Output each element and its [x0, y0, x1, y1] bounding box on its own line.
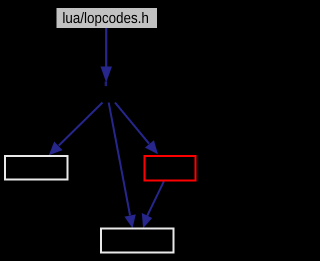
red node (truncated, empty box): [145, 156, 196, 181]
left node (empty box): [5, 156, 68, 180]
edge llimits.h -> bottom node (middle line): [109, 103, 136, 229]
edge red node -> bottom node: [142, 182, 164, 229]
edge lopcodes.h -> llimits.h (vertical arrow): [101, 28, 113, 86]
edge llimits.h -> red node: [115, 103, 158, 155]
bottom node (empty box): [101, 229, 174, 253]
edge llimits.h -> left node: [49, 103, 103, 156]
node lua/lopcodes.h: [57, 8, 158, 28]
